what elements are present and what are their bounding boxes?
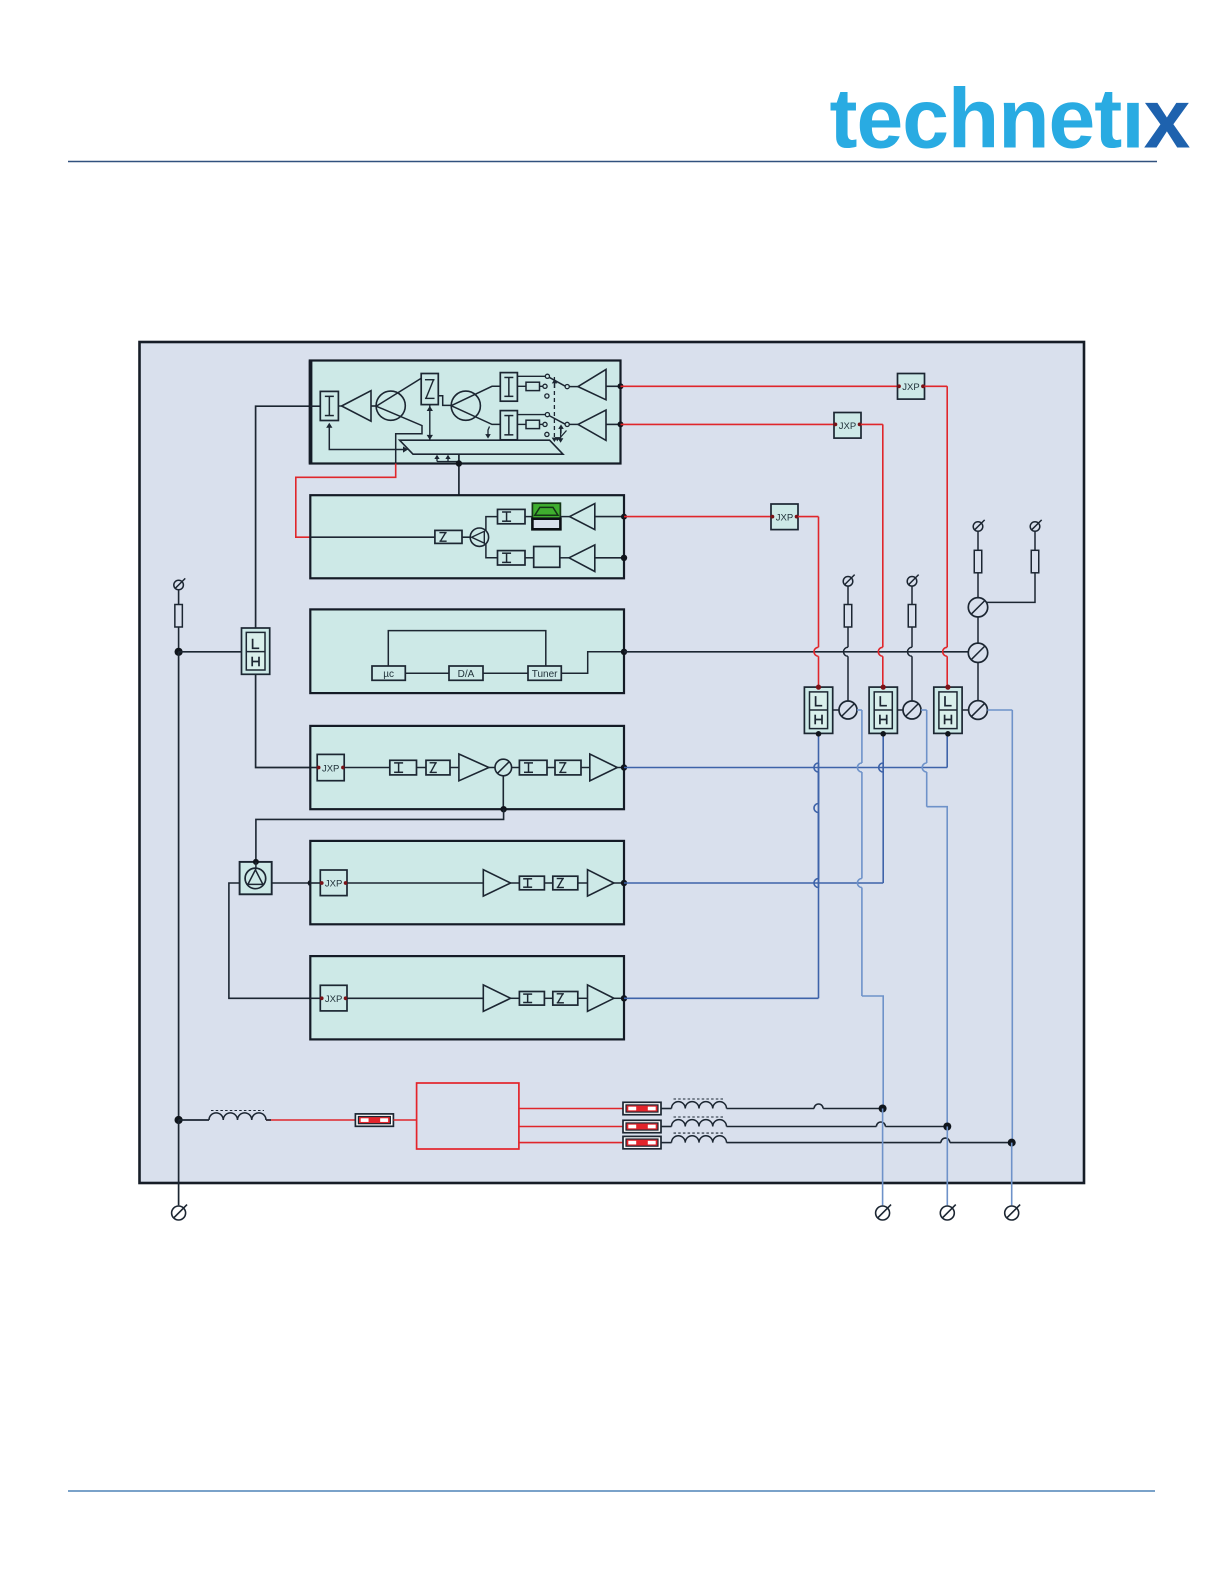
red wire PSU out 1 [519,1108,623,1110]
svg-text:JXP: JXP [325,994,342,1005]
connector J2 JXP [834,413,861,439]
microcontroller uc [372,666,405,680]
svg-text:JXP: JXP [839,421,856,432]
power inductor L4 [661,1142,672,1144]
diplexer X1 L/H (left) [242,628,270,674]
wire Z4 to A7 [581,767,590,769]
wire R1 to node A [178,627,180,652]
wire A1 to AT1 [338,405,341,407]
directional coupler CB [968,643,987,662]
connector J1 JXP [898,374,925,400]
node on B1 lower border [456,460,462,466]
SP1 lower branch to I5 [486,544,498,558]
equalizer Z6 [553,992,578,1006]
splitter SP2 symbol [255,862,257,870]
wire node B to port P1 [178,1120,180,1205]
block B2 forward receiver [310,495,624,578]
diagram background frame [140,342,1085,1183]
fuse F2 [623,1102,661,1114]
node D [943,1123,951,1131]
port P3 [940,1206,954,1220]
wire B2 input to Z2 [310,536,435,538]
footer rule [68,1490,1155,1492]
module box U1 [534,547,560,568]
wire SP2 left to block6 [229,883,310,998]
AT1 chord to Z1 [376,378,421,406]
wire I5 to box U1 [525,557,534,559]
test point TP4 [973,522,983,532]
power supply PSU box [417,1083,519,1149]
connector J5 JXP [320,870,347,896]
wire A3 to B1 edge [606,423,621,425]
red wire J2 to diplexer X3 [861,423,883,425]
switch SW2 blade [549,416,565,425]
port P2 [876,1206,890,1220]
power inductor L1 [179,1119,209,1121]
switch control dashed line [553,377,555,438]
resistor R3 branch [517,423,526,425]
Z1 control arrow to bus [429,405,431,440]
directional tap TA1 [495,759,512,776]
amplifier A1 [342,391,371,422]
test point TP3 [907,577,917,587]
wire SW1 to A2 [569,386,578,388]
SW1 actuator arrow [554,381,556,389]
wire I9 to Z6 [544,997,552,999]
blue wire B5 output to X3 bottom [624,882,883,884]
node A junction [175,648,183,656]
wire SP2 right to block5 [272,882,311,884]
wire tuner to B3 edge [561,652,624,673]
equalizer Z1 [421,374,438,405]
wire node A to diplexer X1 [179,651,242,653]
svg-text:Tuner: Tuner [532,669,558,680]
wire B6 input [310,997,320,999]
node B6 output [621,995,627,1001]
wire A5 to B2 edge [595,557,624,559]
attenuator pad I5 [498,551,526,565]
node B1 lower output [618,421,624,427]
feedback wire bus to I1 [329,425,404,450]
wire X3 to coupler C2 [897,709,903,711]
amplifier A4 [570,504,595,530]
wire bus to block2 [458,454,460,495]
switch SW1 blade [549,377,565,386]
svg-text:JXP: JXP [902,382,919,393]
wire B1 input [310,405,321,407]
switch SW1 common contact [565,385,569,389]
resistor R7 [1031,550,1039,573]
wire A8 to I8 [511,882,520,884]
switch SW1 contacts [545,374,549,378]
wire R5 to coupler C2 [911,627,913,647]
splitter SP2 box [240,862,272,894]
attenuator pad I6 [390,760,417,775]
test point TP1 (left) [174,580,184,590]
SP1 upper branch to I4 [486,517,498,531]
amplifier A5 [569,545,595,572]
variable attenuator AT1 [376,391,405,420]
wire A2 to B1 edge [606,385,621,387]
red wire B1 to J2 [621,423,835,425]
node E [1008,1139,1016,1147]
AT2 chord lower to I3 [451,406,500,425]
red wire PSU out 3 [519,1142,623,1144]
resistor R1 (left) [175,605,183,628]
wire Z6 to A11 [578,997,588,999]
block B5 downstream amplifier 2 [310,841,624,924]
power node B [175,1116,183,1124]
amplifier A3 [578,410,606,440]
power inductor L3 [661,1126,672,1128]
wire Z1 to AT2 [438,396,451,406]
switch SW2 contacts [545,413,549,417]
svg-text:JXP: JXP [322,763,339,774]
blue wire B6 output to X2 bottom [624,997,819,999]
amplifier A9 [588,870,614,896]
svg-text:JXP: JXP [776,513,793,524]
directional coupler CA [968,598,987,617]
dashed diagonal arrow to bus [559,431,567,440]
tuner [528,666,561,680]
diplexer X3 L/H [869,687,897,733]
wire L3 to port node D [727,1126,877,1128]
power inductor L2 [661,1108,672,1110]
blue wire coupler C1 to port line [857,709,862,711]
wire CB to CC [977,663,979,701]
resistor R2 branch [517,385,526,387]
coupler CC [969,701,988,720]
port P1 [172,1206,186,1220]
red wire J1 to diplexer X4 [925,385,948,387]
wire J4 to I6 [344,767,390,769]
equalizer Z3 [426,760,450,775]
wire I6 to Z3 [417,767,427,769]
fuse F1 [355,1114,393,1126]
wire CA to CB [977,617,979,643]
wire uc to DA [405,672,449,674]
svg-text:µc: µc [383,669,394,680]
connector J3 JXP [771,504,798,530]
red wire L1 to fuse F1 [266,1119,355,1121]
wire TA1 to I7 [512,767,520,769]
TA1 branch down to B4 border [502,776,504,809]
header rule [68,161,1157,163]
node B1 upper output [618,383,624,389]
wire X4 to coupler CC [962,709,969,711]
fuse F4 [623,1136,661,1148]
amplifier A6 [459,754,489,781]
red wire B2 to J3 [624,516,771,518]
wire J5 to A8 [347,882,483,884]
wire TP2 to R4 [847,587,849,605]
node B4 output [621,764,627,770]
attenuator pad I8 [519,876,544,890]
control bus parallelogram [400,440,563,454]
wire SW2 to A3 [569,423,578,425]
amplifier A8 [483,870,510,896]
connector J4 JXP [317,754,344,780]
diplexer X4 L/H [934,687,962,733]
amplifier A2 [578,369,606,399]
wire R4 to coupler C1 [847,627,849,647]
wire Z5 to A9 [578,882,588,884]
wire DA to tuner [483,672,528,674]
wire TP5 to R7 [1034,532,1036,551]
switch SW2 common contact [565,422,569,426]
coupler C1 [839,701,857,719]
node B2 output [621,514,627,520]
amplifier A10 [483,985,510,1011]
splitter SP1 [470,528,488,546]
svg-text:technetıx: technetıx [830,72,1191,166]
wire FL1 to A4 [560,516,569,518]
technetix logo [830,72,1191,166]
wire Z3 to A6 [450,767,459,769]
node B3 output [621,649,627,655]
node B2 lower output [621,555,627,561]
block B1 reverse amplifier [310,361,621,464]
wire X2 to coupler C1 [833,709,839,711]
wire I7 to Z4 [547,767,555,769]
wire B5 input [310,882,320,884]
block B3 controller [310,609,624,693]
wire A7 to B4 edge [617,767,624,769]
wire TP1 to R1 [178,590,180,604]
wire I8 to Z5 [544,882,552,884]
red wire F1 to PSU [393,1119,416,1121]
blue wire node C to port P2 [882,1109,884,1206]
SW2 actuator arrow [560,426,562,434]
wire node A down to power node B [178,652,180,1120]
bandpass filter FL1 (green) [532,503,560,529]
resistor R6 [974,550,982,573]
attenuator pad I4 [498,509,526,523]
wire L2 to port node C [727,1108,815,1110]
amplifier A11 [588,985,614,1011]
wire I3 upper branch to contact [517,414,545,416]
AT2 control arrow to bus [488,427,490,437]
wire X1 bottom to block4 input [256,674,310,767]
diplexer X2 L/H [804,687,832,733]
blue wire coupler CC to port line [987,709,1012,711]
block B6 downstream amplifier 3 [310,956,624,1039]
dashed line arrows to bus [552,438,556,442]
amplifier A7 [590,754,618,781]
wire R7 to coupler CA [987,573,1036,602]
blue wire node E to port P4 [1011,1143,1013,1206]
variable attenuator AT2 [451,391,480,420]
wire TA1 loop to splitter SP2 [256,809,504,862]
test point TP5 [1030,522,1040,532]
equalizer Z4 [555,760,581,775]
resistor R4 [844,605,852,628]
DAC D/A [449,666,483,680]
resistor R5 [908,605,916,628]
equalizer Z2 [435,530,462,543]
attenuator pad I2 [500,373,517,402]
coupler C2 [903,701,921,719]
red wire PSU out 2 [519,1126,623,1128]
wire A11 to B6 edge [614,997,624,999]
red wire B1 to J1 [621,385,898,387]
wire L4 to port node E [727,1142,941,1144]
wire uc top loop to tuner top [388,631,546,666]
wire I2 upper branch to contact [517,375,545,377]
wire A4 to B2 edge [595,516,624,518]
svg-text:D/A: D/A [458,669,475,680]
wire block1 to X1 top [256,406,310,628]
fuse F3 [623,1120,661,1132]
wire TP3 to R5 [911,587,913,605]
red control wire B1 to block2 [296,464,396,538]
attenuator pad I7 [519,760,547,775]
wire I4 to filter FL1 [525,516,532,518]
wire J6 to A10 [347,997,483,999]
node B5 output [621,880,627,886]
red wire J3 to diplexer X2 [798,516,819,518]
wire A9 to B5 edge [614,882,624,884]
wire U1 to A5 [560,557,569,559]
wire B3 output to coupler CB [624,651,968,653]
test point TP2 [843,577,853,587]
wire A6 to tap TA1 [489,767,495,769]
equalizer Z5 [553,876,578,890]
wire R6 to coupler CA [977,573,979,598]
svg-text:JXP: JXP [325,879,342,890]
blue wire coupler C2 to port line [921,709,927,711]
wire TP4 to R6 [977,532,979,551]
wire A10 to I9 [511,997,520,999]
wire Z2 to splitter SP1 [462,536,470,538]
attenuator pad I3 [500,411,517,440]
block B4 downstream amplifier 1 [310,726,624,809]
blue wire B4 output to X4 bottom [624,767,947,769]
node C [879,1105,887,1113]
port P4 [1005,1206,1019,1220]
node TA1 on border [500,806,506,812]
attenuator pad I9 [519,992,544,1006]
AT2 chord upper to I2 [451,386,500,405]
attenuator pad I1 [320,391,338,420]
wire B4 input [310,767,317,769]
blue wire node D to port P3 [946,1127,948,1206]
connector J6 JXP [320,985,347,1011]
bus bottom bent arrows [437,461,459,463]
AT1 control leg to red control node [376,406,422,463]
